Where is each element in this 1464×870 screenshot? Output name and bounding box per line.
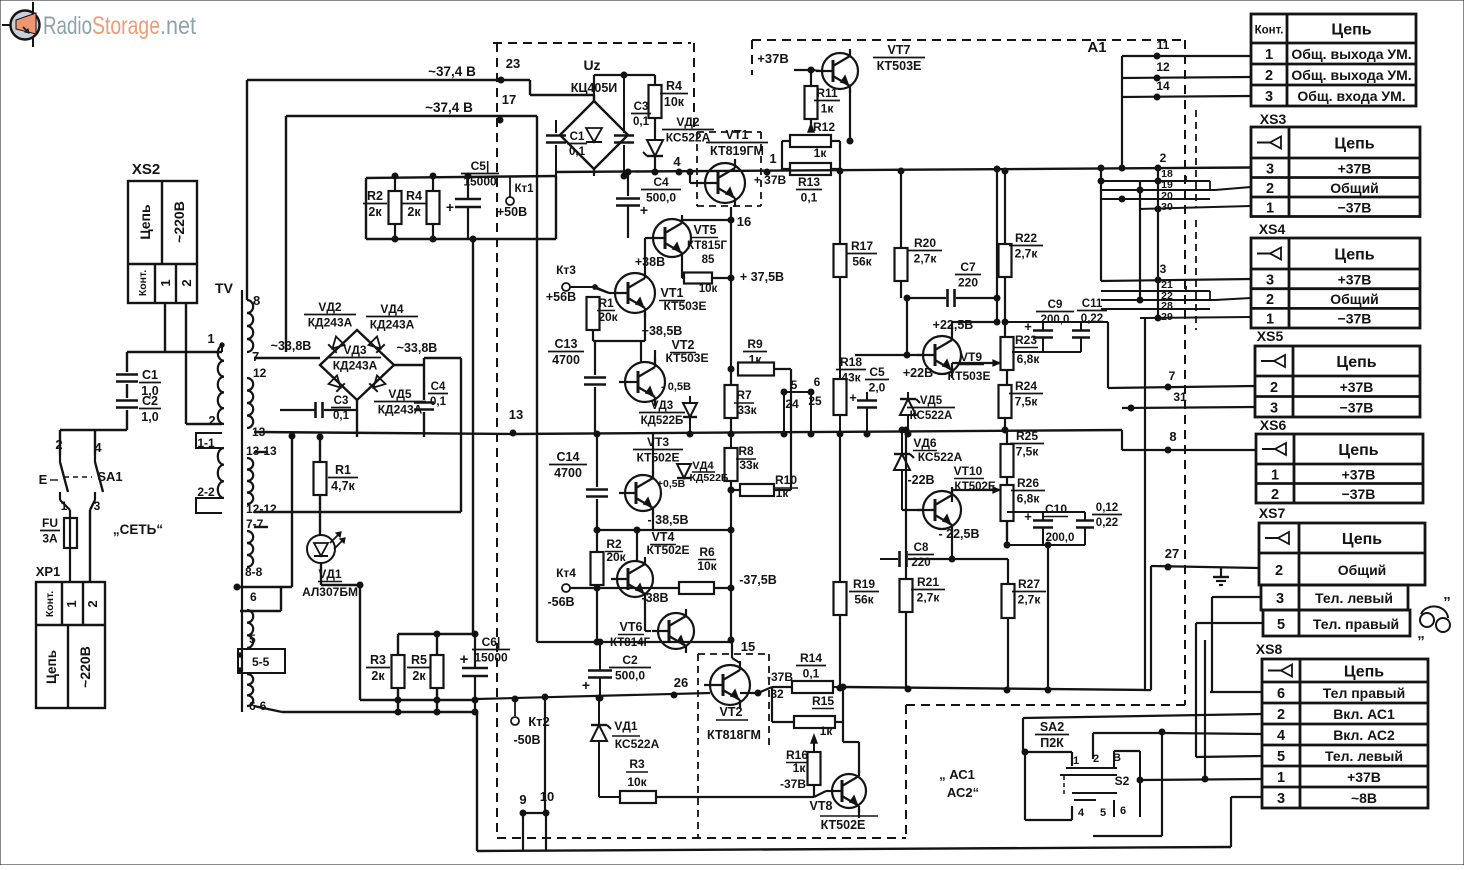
wire nodes to R9 line — [784, 391, 811, 393]
svg-text:−37В: −37В — [1338, 311, 1372, 327]
svg-text:С1: С1 — [142, 368, 158, 382]
svg-text:R26: R26 — [1017, 476, 1039, 490]
svg-text:24: 24 — [785, 397, 799, 411]
svg-text:Общий: Общий — [1330, 180, 1379, 196]
potentiometer R26 6,8к — [1001, 485, 1014, 521]
svg-text:КТ502Е: КТ502Е — [954, 481, 996, 493]
svg-text:23: 23 — [506, 56, 520, 71]
svg-text:15000: 15000 — [474, 651, 508, 665]
svg-text:Вкл. АС1: Вкл. АС1 — [1333, 706, 1395, 722]
capacitor C3 0,1 bridge — [314, 402, 317, 418]
wire mid rail — [511, 430, 1122, 434]
svg-text:Цепь: Цепь — [1334, 136, 1374, 153]
svg-text:С2: С2 — [622, 653, 638, 667]
wire +50V rail — [366, 176, 556, 178]
svg-text:~220В: ~220В — [77, 646, 93, 688]
svg-text:5: 5 — [1277, 617, 1285, 633]
svg-text:500,0: 500,0 — [615, 669, 645, 683]
connector table XS7 — [1259, 523, 1425, 636]
svg-text:VД4: VД4 — [692, 460, 714, 472]
wire 7-7 stub — [254, 526, 268, 528]
svg-text:Е: Е — [39, 472, 48, 487]
wire C5I/C6I column — [472, 239, 474, 634]
wire between C1 C2 — [126, 384, 128, 398]
wire ~37,4V bus top — [246, 80, 248, 300]
svg-text:2к: 2к — [371, 669, 385, 683]
svg-text:VД3: VД3 — [343, 343, 367, 357]
wire R15 to R16 arrow — [811, 735, 817, 743]
svg-text:С1: С1 — [570, 131, 585, 143]
svg-text:Цепь: Цепь — [1336, 354, 1376, 371]
svg-text:7,5к: 7,5к — [1016, 445, 1040, 459]
svg-text:85: 85 — [702, 254, 715, 266]
svg-text:4,7к: 4,7к — [331, 479, 355, 493]
wire long vertical -38V feed — [536, 116, 538, 642]
svg-text:~37,4 В: ~37,4 В — [425, 100, 473, 115]
svg-text:КТ819ГМ: КТ819ГМ — [710, 144, 764, 158]
wire XS4 stack 29 — [1140, 317, 1251, 318]
svg-text:R10: R10 — [775, 473, 797, 487]
svg-text:+: + — [446, 199, 454, 215]
svg-text:+0,5В: +0,5В — [657, 478, 686, 490]
svg-text:+56В: +56В — [546, 290, 576, 304]
svg-text:15: 15 — [741, 639, 755, 654]
wire output line right — [843, 687, 1151, 690]
wire R26 bottom — [1006, 521, 1008, 545]
svg-text:1: 1 — [1277, 770, 1285, 786]
svg-text:VТ5: VТ5 — [694, 223, 717, 237]
svg-text:VД3: VД3 — [651, 400, 673, 412]
connector table XS6 — [1256, 434, 1423, 503]
wire bridge bottom to 13 line — [356, 400, 358, 437]
resistor R20 2,7к — [900, 171, 902, 248]
wire A1 pins column — [1121, 56, 1123, 168]
wire XS8 pin4 line — [1162, 733, 1262, 734]
svg-text:Конт.: Конт. — [137, 270, 149, 296]
dashed box VT2 output — [698, 654, 769, 838]
svg-text:5-5: 5-5 — [252, 655, 270, 669]
svg-text:0,1: 0,1 — [633, 116, 650, 128]
svg-text:VТ1: VТ1 — [661, 286, 684, 300]
svg-text:XS7: XS7 — [1259, 505, 1286, 521]
svg-text:R20: R20 — [914, 236, 936, 250]
svg-text:1: 1 — [158, 279, 173, 286]
svg-text:R19: R19 — [853, 577, 875, 591]
transformer primary winding 1-2 — [218, 345, 224, 424]
svg-text:КС522А: КС522А — [615, 737, 660, 751]
svg-text:.net: .net — [160, 12, 196, 40]
wire VD6 column — [901, 430, 903, 454]
wire XS3 stack hooks — [1209, 181, 1211, 190]
wire XS3 stack 20 — [1101, 198, 1210, 200]
wire VT4 base from -38,5V line — [636, 530, 638, 561]
wire VT1' base — [595, 287, 609, 293]
svg-text:3: 3 — [1266, 161, 1274, 177]
svg-text:+: + — [460, 651, 469, 668]
wire VT10 emitter to R26 — [951, 490, 953, 502]
svg-text:R11: R11 — [816, 86, 838, 100]
svg-text:VД6: VД6 — [913, 436, 937, 450]
svg-text:С9: С9 — [1048, 299, 1063, 311]
wire 9-10 link — [523, 812, 546, 814]
potentiometer R12 1к — [790, 120, 835, 160]
svg-text:Общ. выхода УМ.: Общ. выхода УМ. — [1291, 67, 1411, 83]
svg-text:~37,4 В: ~37,4 В — [428, 64, 476, 79]
svg-text:56к: 56к — [852, 255, 872, 269]
wire output mid line — [477, 693, 710, 699]
svg-text:-37В: -37В — [767, 670, 793, 684]
svg-text:1: 1 — [769, 151, 776, 166]
wire R3R5 bottoms — [360, 699, 477, 701]
svg-text:С2: С2 — [142, 394, 158, 408]
wire VT10 collector down — [951, 529, 953, 559]
svg-text:10к: 10к — [664, 95, 685, 109]
resistor R4 10к — [654, 75, 656, 85]
wire x1205 column — [1204, 640, 1206, 779]
wire XS7 tel levyi link — [1211, 597, 1213, 692]
terminal 5-5 — [238, 649, 285, 673]
wire bus2 left drop — [285, 116, 287, 352]
svg-text:26: 26 — [674, 675, 688, 690]
svg-text:+: + — [582, 677, 590, 693]
svg-text:VТ1: VТ1 — [726, 128, 749, 142]
svg-text:R2: R2 — [606, 537, 622, 551]
svg-text:3: 3 — [1270, 400, 1278, 416]
svg-text:VД5: VД5 — [920, 395, 943, 407]
svg-text:7,5к: 7,5к — [1015, 395, 1039, 409]
svg-text:С14: С14 — [557, 450, 580, 464]
svg-text:5: 5 — [249, 632, 256, 646]
wire node 27 line — [1151, 566, 1259, 568]
svg-text:15000: 15000 — [463, 175, 497, 189]
svg-text:31: 31 — [1173, 390, 1187, 404]
svg-text:КД243А: КД243А — [308, 316, 353, 330]
svg-text:4: 4 — [1277, 728, 1285, 744]
svg-text:4: 4 — [1078, 807, 1085, 819]
wire C2 down to SA1 — [126, 410, 128, 430]
wire rail left loop — [365, 178, 367, 239]
wire XS3 stack 18 — [1101, 180, 1210, 182]
connector table XS8 — [1262, 659, 1428, 808]
svg-text:ХР1: ХР1 — [36, 564, 61, 579]
node 16 wire — [730, 207, 732, 385]
wire XS4 hooks — [1209, 291, 1211, 300]
svg-text:3А: 3А — [42, 532, 58, 546]
wire R6 right — [714, 587, 731, 589]
svg-text:2: 2 — [1270, 380, 1278, 396]
wire +37V bus to VT7 — [794, 69, 815, 71]
terminal 1-1 — [196, 433, 222, 448]
svg-text:1к: 1к — [821, 102, 835, 116]
svg-text:3: 3 — [1277, 791, 1285, 807]
wire XS4 stack 22 — [1101, 299, 1215, 301]
svg-text:+38,5В: +38,5В — [642, 324, 683, 338]
svg-text:3: 3 — [1160, 262, 1167, 276]
capacitor C4 500,0 — [627, 172, 629, 196]
svg-text:8: 8 — [1169, 429, 1176, 444]
svg-text:R1: R1 — [335, 463, 351, 477]
svg-text:С4: С4 — [431, 381, 446, 393]
wire XS3 left columns — [1100, 168, 1102, 281]
wire Кт3 to VT1' base — [570, 286, 595, 288]
wire A1 pin 12 — [1122, 77, 1251, 78]
svg-text:6,8к: 6,8к — [1017, 492, 1041, 506]
svg-text:-50В: -50В — [513, 733, 540, 747]
transistor VT10 КТ502Е — [923, 491, 961, 529]
svg-text:VТ6: VТ6 — [620, 620, 643, 634]
svg-text:XS3: XS3 — [1260, 111, 1287, 127]
svg-text:7: 7 — [1169, 369, 1176, 383]
resistor R21 2,7к — [905, 430, 907, 579]
zener VD5' КС522А — [900, 399, 916, 415]
wire R3 R5 top — [398, 633, 475, 635]
wire 13-13 link — [291, 436, 293, 587]
wire VT1' collector up — [644, 238, 646, 269]
wire XS2 pin2 down — [185, 303, 187, 424]
svg-text:Цепь: Цепь — [1334, 247, 1374, 264]
wire VT4 emitter to VT6 base — [644, 598, 646, 631]
svg-text:Цепь: Цепь — [1331, 22, 1371, 39]
svg-text:„: „ — [1417, 625, 1425, 642]
svg-text:+37В: +37В — [1338, 271, 1372, 287]
svg-text:2: 2 — [208, 413, 215, 428]
capacitor C5I 15000 — [467, 176, 469, 198]
svg-text:3: 3 — [1266, 272, 1274, 288]
transistor VT1 КТ819ГМ — [705, 163, 745, 203]
svg-text:220: 220 — [958, 276, 978, 290]
transistor VT3 КТ502Е — [625, 475, 661, 511]
svg-text:Кт4: Кт4 — [556, 566, 576, 580]
svg-text:9: 9 — [519, 792, 526, 807]
wire R6-R10 connections — [790, 369, 792, 490]
zener VD1' КС522А — [591, 725, 607, 741]
wire VT5 collector — [681, 219, 683, 220]
diode VD3 КД522Б — [683, 403, 697, 417]
wire R2R4 bottom — [366, 238, 473, 240]
svg-text:XS2: XS2 — [132, 161, 160, 178]
svg-text:С4: С4 — [653, 175, 669, 189]
svg-text:КТ818ГМ: КТ818ГМ — [707, 728, 761, 742]
wire 6-6 bottom run — [254, 706, 282, 712]
svg-text:13: 13 — [509, 407, 523, 422]
svg-text:КТ503Е: КТ503Е — [664, 299, 707, 313]
svg-text:R15: R15 — [812, 694, 834, 708]
svg-text:−37В: −37В — [1340, 399, 1374, 415]
svg-text:17: 17 — [502, 92, 516, 107]
wire VT8 collector/emitter — [858, 742, 860, 773]
svg-text:+22В: +22В — [903, 366, 933, 380]
svg-text:1,0: 1,0 — [141, 410, 158, 424]
svg-text:2,7к: 2,7к — [1018, 593, 1042, 607]
svg-text:−37В: −37В — [1342, 486, 1376, 502]
svg-text:200,0: 200,0 — [1041, 314, 1070, 326]
capacitor C1 0,1 near bridge — [555, 120, 557, 133]
resistor R22 2,7к — [1004, 171, 1006, 244]
svg-text:-37В: -37В — [780, 777, 806, 791]
potentiometer R23 6,8к — [1001, 337, 1014, 370]
svg-text:R5: R5 — [411, 653, 427, 667]
wire VT5 R outputs — [728, 275, 734, 281]
switch SA2 П2К — [1022, 720, 1165, 836]
resistor R7 33к — [725, 385, 738, 418]
wire 13 line (mid rail left) — [254, 432, 511, 434]
wire VT2' base feed — [640, 341, 642, 363]
svg-text:R4: R4 — [666, 79, 682, 93]
transistor VT1' КТ503Е — [615, 273, 655, 313]
svg-text:А1: А1 — [1087, 39, 1106, 56]
logo RadioStorage.net — [2, 2, 196, 47]
svg-text:R13: R13 — [798, 175, 820, 189]
svg-text:+37В: +37В — [1342, 466, 1376, 482]
svg-text:Тел. правый: Тел. правый — [1313, 616, 1399, 632]
svg-text:Тел. левый: Тел. левый — [1315, 590, 1393, 606]
test point Кт2 — [511, 717, 519, 725]
svg-text:R21: R21 — [917, 575, 939, 589]
svg-text:~220В: ~220В — [171, 201, 187, 243]
svg-text:Цепь: Цепь — [1344, 664, 1384, 681]
svg-text:1-1: 1-1 — [197, 436, 215, 450]
svg-text:4: 4 — [673, 154, 681, 169]
capacitor C4 0,1 bridge — [423, 365, 425, 400]
svg-text:2: 2 — [1266, 292, 1274, 308]
svg-text:КТ815Г: КТ815Г — [687, 240, 728, 252]
svg-text:VД4: VД4 — [380, 302, 404, 316]
svg-text:Storage: Storage — [92, 12, 160, 40]
capacitor C3 0,1 near bridge — [623, 75, 625, 133]
resistor R1 4,7к — [319, 437, 321, 462]
svg-text:6: 6 — [250, 590, 257, 604]
svg-text:R2: R2 — [367, 189, 383, 203]
svg-text:0,1: 0,1 — [430, 396, 447, 408]
svg-text:Общий: Общий — [1338, 562, 1387, 578]
dashed box power supply section — [493, 42, 691, 44]
svg-text:33к: 33к — [739, 458, 759, 472]
wire A1 pin 11 — [1122, 55, 1251, 57]
svg-text:~33,8В: ~33,8В — [271, 339, 312, 353]
svg-text:5: 5 — [1100, 807, 1106, 819]
wire XS8 pin5 line — [1196, 756, 1262, 757]
svg-text:12: 12 — [1156, 60, 1170, 74]
svg-text:+37В: +37В — [1347, 769, 1381, 785]
svg-text:2: 2 — [55, 437, 62, 452]
diode VD4 КД522Б — [677, 464, 691, 478]
svg-text:R3: R3 — [629, 757, 645, 771]
svg-text:+: + — [849, 390, 857, 405]
svg-text:6: 6 — [814, 375, 821, 389]
svg-text:R7: R7 — [736, 388, 752, 402]
svg-text:С10: С10 — [1045, 502, 1067, 516]
svg-text:27: 27 — [1165, 546, 1179, 561]
connector table XP1 (rotated) — [36, 582, 105, 708]
svg-text:2к: 2к — [368, 205, 382, 219]
svg-text:2к: 2к — [412, 669, 426, 683]
svg-text:16: 16 — [737, 214, 751, 229]
svg-text:VД1: VД1 — [614, 719, 638, 733]
svg-text:Общ. выхода УМ.: Общ. выхода УМ. — [1291, 46, 1411, 62]
wire R12 R13 left link — [782, 140, 790, 142]
wire y239 link — [473, 238, 556, 240]
svg-text:R17: R17 — [851, 239, 873, 253]
svg-text:С7: С7 — [960, 260, 976, 274]
svg-text:+ 37,5В: + 37,5В — [740, 270, 784, 284]
svg-text:0,1: 0,1 — [801, 191, 818, 205]
fuse FU 3А — [40, 500, 77, 582]
wire VT9 collector up — [951, 322, 953, 334]
test point Кт1 +50В — [506, 197, 514, 205]
svg-text:+37В: +37В — [757, 51, 788, 66]
ground symbol — [1220, 568, 1222, 577]
svg-text:R6: R6 — [699, 545, 715, 559]
wire to transformer primary top — [127, 351, 222, 353]
wire XS4 stack 21 — [1101, 290, 1210, 292]
svg-text:R22: R22 — [1015, 231, 1037, 245]
svg-text:-22В: -22В — [907, 473, 934, 487]
svg-text:АЛ307БМ: АЛ307БМ — [302, 585, 358, 599]
resistor R1 20к — [594, 287, 596, 297]
svg-text:2,7к: 2,7к — [1015, 247, 1039, 261]
wire XS4 pin 3 — [1101, 279, 1251, 281]
wire bridge bottom to rail — [593, 169, 595, 176]
terminal 2-2 — [196, 498, 222, 513]
svg-text:6,8к: 6,8к — [1017, 352, 1041, 366]
resistor R10 1к — [740, 484, 774, 496]
svg-text:ТV: ТV — [215, 280, 234, 296]
svg-text:Тел правый: Тел правый — [1323, 685, 1405, 701]
svg-text:КТ502Е: КТ502Е — [647, 543, 690, 557]
svg-text:Общ. входа УМ.: Общ. входа УМ. — [1297, 88, 1405, 104]
svg-text:-56В: -56В — [547, 595, 574, 609]
wire VT1 base from node 4 — [689, 172, 691, 183]
wire 7 to bridge — [254, 357, 320, 359]
svg-text:Цепь: Цепь — [1338, 442, 1378, 459]
wire ~37,4V bus second — [286, 115, 537, 117]
svg-text:R27: R27 — [1018, 577, 1040, 591]
resistor R3 2к — [397, 634, 399, 655]
svg-text:3: 3 — [1265, 89, 1273, 105]
wire XS4 stack 28 — [1101, 308, 1210, 310]
svg-text:5: 5 — [1277, 749, 1285, 765]
headphone icon — [1417, 594, 1451, 642]
svg-text:~33,8В: ~33,8В — [397, 341, 438, 355]
svg-text:10к: 10к — [697, 559, 717, 573]
svg-text:10к: 10к — [699, 283, 718, 295]
wire x1108 column — [1107, 322, 1109, 388]
wire vertical x1145 — [1144, 408, 1146, 690]
wire VD1' column — [598, 698, 600, 725]
svg-text:20к: 20к — [598, 310, 618, 324]
wire R12 R13 right link — [831, 140, 840, 142]
resistor R25 7,5к — [1006, 430, 1008, 444]
svg-text:С5: С5 — [869, 365, 885, 379]
svg-text:+38В: +38В — [635, 255, 665, 269]
transformer primary winding 1-1/2-2 — [218, 448, 224, 498]
svg-text:1: 1 — [1266, 312, 1274, 328]
wire SA1 pole2 to XP1 pin2 — [90, 500, 95, 510]
wire VT2 emitter to R14 R15 — [740, 692, 758, 694]
svg-text:4700: 4700 — [554, 466, 582, 480]
svg-text:6: 6 — [1277, 686, 1285, 702]
svg-text:КТ503Е: КТ503Е — [948, 369, 991, 383]
svg-text:1: 1 — [1271, 467, 1279, 483]
svg-text:500,0: 500,0 — [646, 191, 676, 205]
svg-text:0,22: 0,22 — [1081, 313, 1103, 325]
svg-text:КС522А: КС522А — [910, 410, 953, 422]
rectifier Uz КЦ405И — [560, 57, 628, 169]
wire C9 C11 top/bottom — [1005, 321, 1108, 323]
svg-text:R16: R16 — [786, 748, 808, 762]
svg-text:29: 29 — [1161, 311, 1173, 323]
svg-text:R8: R8 — [738, 444, 754, 458]
